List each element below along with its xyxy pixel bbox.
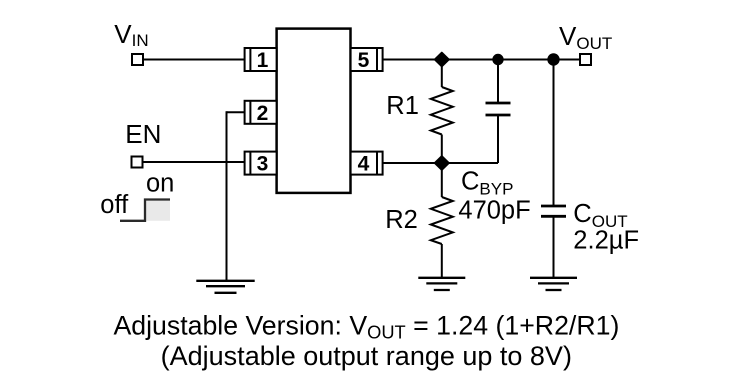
wire pin 2 stub — [227, 111, 245, 113]
node junction dot C (COUT top) — [547, 53, 559, 65]
wire pin 5 output rail — [383, 59, 580, 61]
ground (under R2) — [418, 278, 465, 290]
ground (left, pin 2) — [196, 281, 254, 293]
node junction dot A (R1 top) — [435, 53, 449, 67]
pin 2 — [245, 101, 277, 125]
resistor R2 — [431, 163, 453, 278]
svg-text:3: 3 — [257, 153, 269, 176]
svg-text:R2: R2 — [385, 206, 418, 234]
wire pin 4 to node D — [383, 162, 442, 164]
on/off step waveform: gray fill — [145, 200, 170, 221]
svg-text:EN: EN — [125, 119, 161, 149]
on/off step waveform: line — [120, 200, 170, 221]
terminal VOUT square — [580, 54, 591, 65]
svg-text:on: on — [146, 170, 174, 198]
svg-text:off: off — [100, 191, 129, 219]
pin 1 — [245, 48, 277, 72]
svg-text:(Adjustable output range up to: (Adjustable output range up to 8V) — [161, 341, 572, 371]
IC body U1 — [277, 29, 351, 193]
svg-text:2: 2 — [257, 102, 269, 125]
svg-text:5: 5 — [358, 49, 370, 72]
capacitor COUT — [541, 60, 566, 278]
terminal EN square — [132, 157, 143, 168]
svg-text:4: 4 — [358, 153, 370, 176]
node junction dot D (R1 bottom / pin 4) — [435, 156, 449, 170]
ground (under COUT) — [530, 278, 577, 290]
svg-text:2.2µF: 2.2µF — [573, 227, 639, 255]
svg-text:1: 1 — [257, 49, 269, 72]
svg-text:Adjustable Version: VOUT = 1.2: Adjustable Version: VOUT = 1.24 (1+R2/R1… — [113, 310, 619, 342]
wire pin 2 to ground vertical — [226, 111, 228, 280]
svg-text:R1: R1 — [386, 92, 419, 120]
pin 5 — [351, 48, 383, 72]
node junction dot B (CBYP top) — [492, 54, 503, 65]
wire EN to pin 3 — [143, 161, 245, 163]
resistor R1 — [431, 60, 453, 164]
pin 4 — [351, 152, 383, 176]
terminal VIN square — [132, 54, 143, 65]
svg-text:470pF: 470pF — [458, 196, 530, 224]
capacitor CBYP — [442, 60, 511, 164]
pin 3 — [245, 152, 277, 176]
wire VIN to pin 1 — [143, 59, 245, 61]
